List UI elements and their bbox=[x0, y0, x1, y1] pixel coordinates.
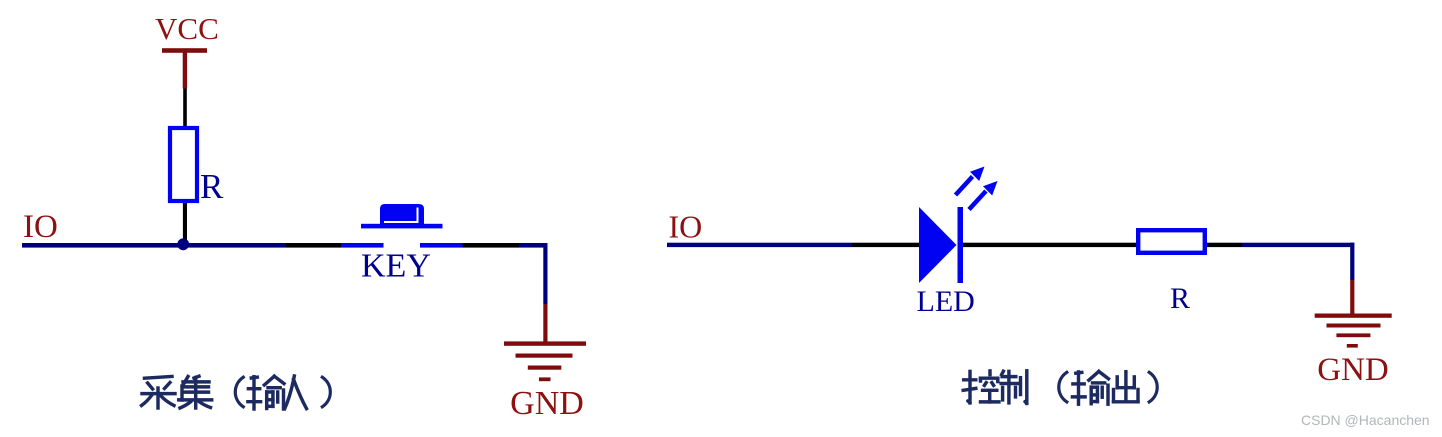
caption char 输 bbox=[248, 376, 284, 409]
caption 控制（输出） bbox=[963, 371, 1157, 404]
LED D1 anode triangle bbox=[919, 207, 957, 283]
resistor R1 pull-up bbox=[170, 128, 197, 201]
svg-text:R: R bbox=[1170, 282, 1190, 315]
wire segment black to switch bbox=[286, 243, 341, 248]
wire VCC stem red bbox=[183, 53, 187, 89]
wire vertical dark red to GND bbox=[543, 304, 547, 342]
ground symbol GND left bbox=[504, 341, 586, 381]
LED D1 emission arrow 2 bbox=[969, 181, 998, 210]
wire IO right navy bbox=[667, 243, 852, 247]
ground symbol GND right bbox=[1315, 314, 1392, 348]
svg-text:LED: LED bbox=[917, 285, 975, 318]
caption char 出 bbox=[1114, 372, 1139, 402]
wire segment black LED to R2 bbox=[963, 243, 1136, 247]
caption char ） second bbox=[1149, 372, 1157, 402]
caption char 控 bbox=[963, 371, 999, 403]
wire segment black after switch bbox=[463, 243, 520, 248]
svg-text:IO: IO bbox=[669, 209, 703, 245]
wire switch contact right blue bbox=[420, 243, 463, 248]
power symbol VCC bar bbox=[162, 48, 207, 53]
resistor R2 series bbox=[1138, 230, 1205, 253]
wire R1 to node A black bbox=[183, 203, 187, 244]
wire vertical dark red to GND right bbox=[1350, 280, 1354, 314]
svg-text:R: R bbox=[200, 167, 224, 206]
LED D1 cathode bar bbox=[958, 207, 964, 283]
pushbutton KEY cap highlight bbox=[384, 208, 418, 223]
pushbutton KEY actuator bar bbox=[361, 224, 443, 229]
svg-text:VCC: VCC bbox=[155, 11, 219, 46]
wire IO horizontal navy bbox=[22, 243, 286, 248]
svg-text:GND: GND bbox=[1317, 352, 1389, 388]
caption char （ bbox=[235, 377, 243, 407]
caption char ） bbox=[322, 377, 330, 407]
caption char 入 bbox=[285, 376, 307, 409]
svg-text:CSDN @Hacanchen: CSDN @Hacanchen bbox=[1301, 412, 1430, 428]
caption char 制 bbox=[1001, 371, 1027, 404]
wire segment black to LED bbox=[852, 243, 920, 247]
wire segment navy to corner right bbox=[1242, 243, 1354, 247]
caption char 采 bbox=[142, 376, 176, 408]
pushbutton KEY cap bbox=[380, 204, 424, 224]
wire vertical navy down to GND right bbox=[1350, 243, 1354, 280]
caption char （ second bbox=[1059, 372, 1067, 402]
wire switch contact left blue bbox=[341, 243, 384, 248]
LED D1 emission arrow 1 bbox=[956, 167, 985, 196]
svg-text:GND: GND bbox=[510, 385, 584, 422]
wire vertical navy down to GND bbox=[543, 243, 547, 304]
junction node A dot bbox=[177, 238, 189, 250]
svg-text:IO: IO bbox=[23, 209, 58, 245]
caption char 输 second bbox=[1072, 371, 1108, 404]
wire VCC stem black bbox=[183, 89, 187, 127]
caption 采集（输入） bbox=[142, 376, 331, 409]
caption char 集 bbox=[179, 376, 212, 408]
wire segment black after R2 bbox=[1207, 243, 1242, 247]
wire segment navy to corner bbox=[519, 243, 548, 248]
svg-text:KEY: KEY bbox=[361, 248, 431, 285]
